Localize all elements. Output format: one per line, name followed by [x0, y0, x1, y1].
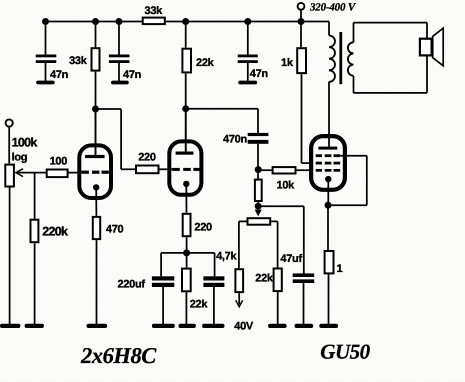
capacitor 470n — [248, 133, 269, 144]
wire branch to R 220 left — [121, 168, 135, 170]
V1 anode plate — [85, 155, 105, 158]
ground below 22k bias — [268, 324, 287, 328]
svg-text:320-400 V: 320-400 V — [309, 1, 357, 13]
wire secondary top lead — [353, 23, 355, 43]
wire node D horizontal — [161, 252, 215, 254]
volume wiper arrow — [16, 169, 23, 177]
svg-text:470n: 470n — [223, 133, 247, 145]
wire 47uf bottom lead — [303, 283, 305, 325]
svg-text:220: 220 — [138, 152, 156, 164]
capacitor right unlabeled — [203, 276, 224, 287]
tube V1 6H8C outline — [79, 145, 111, 198]
ground below 220uf — [152, 324, 175, 328]
ground below 470 — [87, 324, 108, 328]
wire 22k R5 bottom to V2 anode — [185, 73, 187, 152]
wire 10k to GU50 g1 — [297, 169, 313, 171]
tube GU50 outline — [311, 136, 345, 190]
capacitor C1 47n — [36, 55, 57, 64]
wire R 220 right to V2 grid — [160, 168, 174, 170]
svg-text:47n: 47n — [250, 68, 269, 80]
svg-text:2x6H8C: 2x6H8C — [80, 343, 157, 368]
resistor R 33k vertical — [92, 48, 100, 70]
wire 1k top lead — [300, 22, 302, 48]
svg-text:4,7k: 4,7k — [216, 250, 237, 262]
wire wiper to V1 grid — [16, 172, 82, 174]
wire 1k bottom to GU50 g2 — [301, 74, 303, 163]
wire GU50 cathode down — [327, 179, 329, 205]
resistor 22k bias — [274, 269, 282, 292]
wire primary bottom to GU50 anode — [328, 82, 330, 148]
resistor 220 V2 grid — [136, 166, 159, 174]
arrow to -40V — [236, 300, 243, 307]
svg-text:33k: 33k — [69, 55, 88, 67]
wire V2 cathode down — [185, 184, 187, 213]
svg-text:1: 1 — [337, 263, 343, 275]
svg-text:1k: 1k — [281, 57, 294, 69]
capacitor C3 47n — [238, 55, 258, 64]
transformer primary winding — [329, 36, 335, 82]
V1 grid dashes — [82, 171, 109, 174]
svg-text:33k: 33k — [145, 5, 164, 17]
wire C3 bottom lead — [247, 63, 249, 82]
GU50 cathode dot — [325, 176, 331, 182]
ground below volume pot — [0, 324, 20, 328]
wire 22k bias to ground — [277, 292, 279, 324]
svg-text:22k: 22k — [190, 298, 209, 310]
wire 470n top lead vertical — [257, 109, 259, 134]
resistor mid (grid series) — [255, 180, 262, 201]
volume pot body — [5, 165, 14, 187]
wire C2 top lead — [118, 22, 120, 55]
node bus j6 — [298, 18, 305, 25]
wire bus to transformer primary — [301, 21, 329, 23]
wire speaker loop bottom — [354, 92, 428, 94]
wire speaker top drop — [426, 23, 428, 39]
ground below C1 — [36, 81, 55, 85]
wire branch vertical down — [120, 109, 122, 169]
node bus j1 — [42, 18, 49, 25]
capacitor 220uf — [152, 276, 174, 287]
svg-text:100k: 100k — [12, 136, 38, 150]
wire R 1 to ground — [328, 274, 330, 324]
ground below 22k cathode — [179, 324, 196, 328]
svg-text:GU50: GU50 — [320, 340, 370, 364]
svg-text:log: log — [12, 152, 28, 164]
V2 cathode dot — [183, 181, 189, 187]
node A V1 anode — [92, 106, 99, 113]
speaker driver square — [420, 39, 432, 56]
resistor R 33k horizontal — [143, 18, 165, 25]
resistor R 22k vertical — [182, 49, 191, 73]
wire 22k cath top lead — [186, 253, 188, 268]
resistor 220 V2 cathode — [183, 214, 191, 236]
wire GU50 g3 to right — [340, 155, 367, 157]
wire C2 bottom lead — [118, 63, 120, 82]
GU50 anode plate — [318, 147, 337, 150]
svg-text:220k: 220k — [42, 225, 68, 239]
wire speaker loop top — [354, 22, 428, 24]
V2 grid dashes — [172, 168, 201, 171]
node wiper — [255, 203, 262, 210]
wire pot right lead — [271, 220, 277, 222]
ground below 47uf — [295, 324, 314, 328]
ground below 220k — [25, 324, 44, 328]
wire right cap top lead — [214, 253, 216, 276]
wire node A to V2 grid branch horizontal — [96, 108, 122, 110]
resistor R 1 (GU50 cathode) — [325, 251, 334, 273]
wire top bus right segment — [166, 21, 301, 23]
wire C3 top lead — [247, 22, 249, 55]
resistor 4,7k — [235, 269, 243, 292]
node C 470n-10k — [255, 166, 262, 173]
svg-text:220uf: 220uf — [118, 278, 146, 290]
wire 220k bottom to ground — [34, 243, 36, 324]
wire C1 top lead — [45, 22, 47, 56]
GU50 grid rows — [316, 154, 341, 171]
wire primary top lead — [328, 22, 330, 36]
wire volume pot bottom to ground — [9, 188, 11, 325]
svg-text:220: 220 — [194, 221, 212, 233]
node bus j3 — [116, 18, 123, 25]
wire right cap bottom lead — [213, 287, 215, 325]
svg-text:470: 470 — [106, 223, 124, 235]
svg-text:47n: 47n — [123, 69, 142, 81]
wire 33k R2 top lead — [95, 22, 97, 48]
node bus j4 — [182, 18, 189, 25]
speaker cone — [433, 28, 444, 66]
node B V2 anode — [182, 105, 189, 112]
wire 22k R5 top lead — [185, 22, 187, 48]
capacitor 47uf — [293, 273, 315, 283]
wire B+ terminal drop — [300, 10, 302, 22]
wire 33k R2 bottom to V1 anode — [95, 72, 97, 156]
terminal input — [6, 119, 13, 126]
terminal B+ — [298, 3, 305, 10]
resistor 10k horizontal — [273, 167, 296, 173]
wire 220uf bottom lead — [162, 287, 164, 325]
ground below right cap — [202, 324, 224, 328]
wire input terminal to pot — [8, 127, 10, 164]
svg-text:10k: 10k — [277, 179, 296, 191]
wire node B coupling horizontal to 470n — [186, 108, 258, 110]
node D V2 cathode — [183, 249, 190, 256]
wire speaker bottom rise — [426, 56, 428, 93]
node GU50 cathode — [325, 202, 332, 209]
svg-text:22k: 22k — [196, 57, 215, 69]
wire 22k cath bottom lead — [185, 292, 187, 324]
resistor 22k V2 cathode — [182, 269, 191, 292]
capacitor C2 47n — [109, 55, 130, 64]
wiper arrow head — [255, 210, 262, 217]
wire 470n bottom to node C and R-mid — [257, 144, 259, 179]
wire C1 bottom lead — [45, 63, 47, 82]
transformer core — [339, 32, 342, 84]
wire 220k top lead — [34, 173, 36, 219]
ground below R1 — [319, 324, 338, 328]
svg-text:22k: 22k — [255, 272, 274, 284]
wire R-mid bottom to wiper node — [257, 202, 259, 209]
wire secondary bottom lead — [353, 76, 355, 93]
svg-text:40V: 40V — [234, 320, 254, 332]
wire 220uf top lead — [160, 253, 162, 276]
V1 cathode dot — [93, 184, 99, 190]
ground below C2 — [111, 81, 129, 85]
wire V1 anode lead — [95, 109, 97, 156]
wire node C to 10k — [258, 169, 271, 171]
node bus j2 — [92, 18, 99, 25]
resistor 100 grid stopper — [47, 170, 68, 178]
wire cathode node to R 1 — [327, 205, 329, 250]
resistor 220k — [31, 220, 39, 243]
transformer secondary winding — [348, 42, 354, 75]
wire top bus left segment — [46, 21, 142, 23]
wire pot left lead — [239, 220, 247, 222]
svg-text:47uf: 47uf — [280, 253, 302, 265]
svg-text:100: 100 — [50, 156, 68, 168]
wire wiper node to 47uf branch — [258, 205, 304, 207]
wire right drop to cathode node — [366, 156, 368, 206]
potentiometer body — [248, 218, 271, 225]
node bus j5 — [244, 18, 251, 25]
resistor R 1k — [297, 48, 306, 73]
resistor 470 V1 cathode — [93, 217, 100, 239]
svg-text:47n: 47n — [50, 69, 69, 81]
tube V2 6H8C outline — [169, 141, 201, 194]
wire 4,7k bottom shaft — [238, 293, 240, 304]
wire 220 cath bottom to node D — [186, 237, 188, 253]
wire V2 anode lead — [185, 109, 187, 153]
ground below C3 — [238, 81, 257, 85]
wire 47uf top lead — [303, 206, 305, 273]
wire 470 bottom to ground — [96, 240, 98, 324]
wire V1 cathode down — [95, 187, 97, 216]
V2 anode plate — [176, 152, 194, 155]
